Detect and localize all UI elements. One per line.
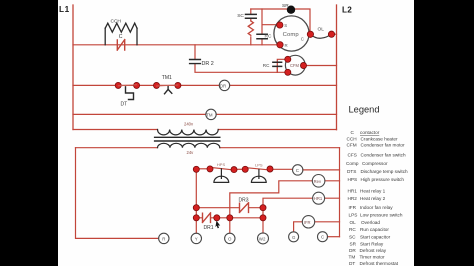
svg-text:W2: W2 bbox=[259, 236, 266, 241]
svg-text:Condenser fan motor: Condenser fan motor bbox=[361, 143, 405, 148]
svg-text:CCH: CCH bbox=[347, 136, 357, 141]
svg-text:L2: L2 bbox=[342, 6, 352, 15]
svg-text:Low pressure switch: Low pressure switch bbox=[360, 212, 403, 217]
svg-text:Comp: Comp bbox=[346, 161, 359, 166]
svg-text:SC: SC bbox=[349, 234, 356, 239]
svg-text:contactor: contactor bbox=[360, 130, 380, 135]
svg-text:Defrost relay: Defrost relay bbox=[360, 248, 387, 253]
svg-text:Rev: Rev bbox=[314, 179, 322, 184]
svg-text:Overload: Overload bbox=[361, 220, 380, 225]
svg-text:Heat relay 1: Heat relay 1 bbox=[360, 189, 386, 194]
svg-text:OL: OL bbox=[318, 27, 325, 33]
svg-text:Crankcase heater: Crankcase heater bbox=[361, 136, 398, 141]
svg-text:Compressor: Compressor bbox=[362, 161, 388, 166]
svg-text:Comp: Comp bbox=[283, 32, 300, 38]
svg-text:C: C bbox=[321, 235, 324, 240]
svg-text:IFR: IFR bbox=[349, 205, 357, 210]
svg-text:S: S bbox=[284, 23, 287, 28]
svg-text:SR: SR bbox=[282, 3, 289, 9]
svg-text:LPS: LPS bbox=[349, 212, 358, 217]
svg-text:Y: Y bbox=[195, 236, 198, 241]
svg-text:CFM: CFM bbox=[347, 143, 357, 148]
svg-text:High pressure switch: High pressure switch bbox=[361, 177, 405, 182]
svg-text:RC: RC bbox=[349, 227, 356, 232]
svg-text:IFR: IFR bbox=[304, 220, 311, 225]
svg-text:DR: DR bbox=[220, 83, 226, 88]
svg-text:TM1: TM1 bbox=[162, 75, 172, 81]
svg-text:R: R bbox=[285, 43, 288, 48]
svg-text:HR1: HR1 bbox=[314, 196, 323, 201]
svg-text:Indoor fan relay: Indoor fan relay bbox=[360, 205, 393, 210]
svg-text:TM: TM bbox=[206, 112, 213, 117]
svg-text:Discharge temp switch: Discharge temp switch bbox=[361, 169, 409, 174]
svg-text:DT: DT bbox=[349, 261, 355, 266]
svg-text:HR1: HR1 bbox=[348, 189, 358, 194]
svg-text:C: C bbox=[119, 34, 123, 40]
svg-text:CCH: CCH bbox=[111, 19, 122, 25]
svg-text:24v: 24v bbox=[187, 150, 195, 155]
svg-text:CFS: CFS bbox=[348, 152, 357, 157]
svg-text:SR: SR bbox=[350, 241, 357, 246]
svg-text:LPS: LPS bbox=[255, 162, 263, 167]
svg-text:Heat relay 2: Heat relay 2 bbox=[360, 196, 386, 201]
svg-text:R: R bbox=[162, 236, 165, 241]
svg-text:L1: L1 bbox=[59, 5, 70, 14]
svg-text:240v: 240v bbox=[184, 121, 194, 126]
svg-text:TM: TM bbox=[349, 255, 356, 260]
svg-text:DT: DT bbox=[121, 102, 128, 108]
svg-text:DTS: DTS bbox=[347, 169, 356, 174]
svg-text:OL: OL bbox=[350, 220, 357, 225]
svg-text:HPS: HPS bbox=[217, 162, 226, 167]
svg-text:O: O bbox=[228, 236, 232, 241]
svg-text:HPS: HPS bbox=[348, 177, 358, 182]
svg-text:Start capacitor: Start capacitor bbox=[360, 234, 391, 239]
svg-text:Start Relay: Start Relay bbox=[360, 241, 384, 246]
svg-text:RC: RC bbox=[263, 63, 270, 68]
svg-text:Run capacitor: Run capacitor bbox=[360, 227, 389, 232]
svg-text:SC: SC bbox=[237, 13, 244, 19]
svg-text:DR3: DR3 bbox=[239, 197, 249, 203]
svg-text:Defrost thermostat: Defrost thermostat bbox=[360, 261, 399, 266]
svg-text:HR2: HR2 bbox=[348, 196, 358, 201]
svg-text:DR: DR bbox=[349, 248, 356, 253]
svg-text:DR 2: DR 2 bbox=[202, 61, 214, 67]
svg-text:RC: RC bbox=[265, 33, 272, 39]
svg-text:Condenser fan switch: Condenser fan switch bbox=[361, 152, 406, 157]
svg-text:DR1: DR1 bbox=[204, 225, 214, 231]
svg-text:Timer motor: Timer motor bbox=[360, 255, 386, 260]
svg-text:CFM: CFM bbox=[290, 63, 299, 68]
svg-text:G: G bbox=[292, 235, 296, 240]
svg-text:Legend: Legend bbox=[349, 105, 380, 115]
svg-text:C: C bbox=[301, 37, 304, 42]
